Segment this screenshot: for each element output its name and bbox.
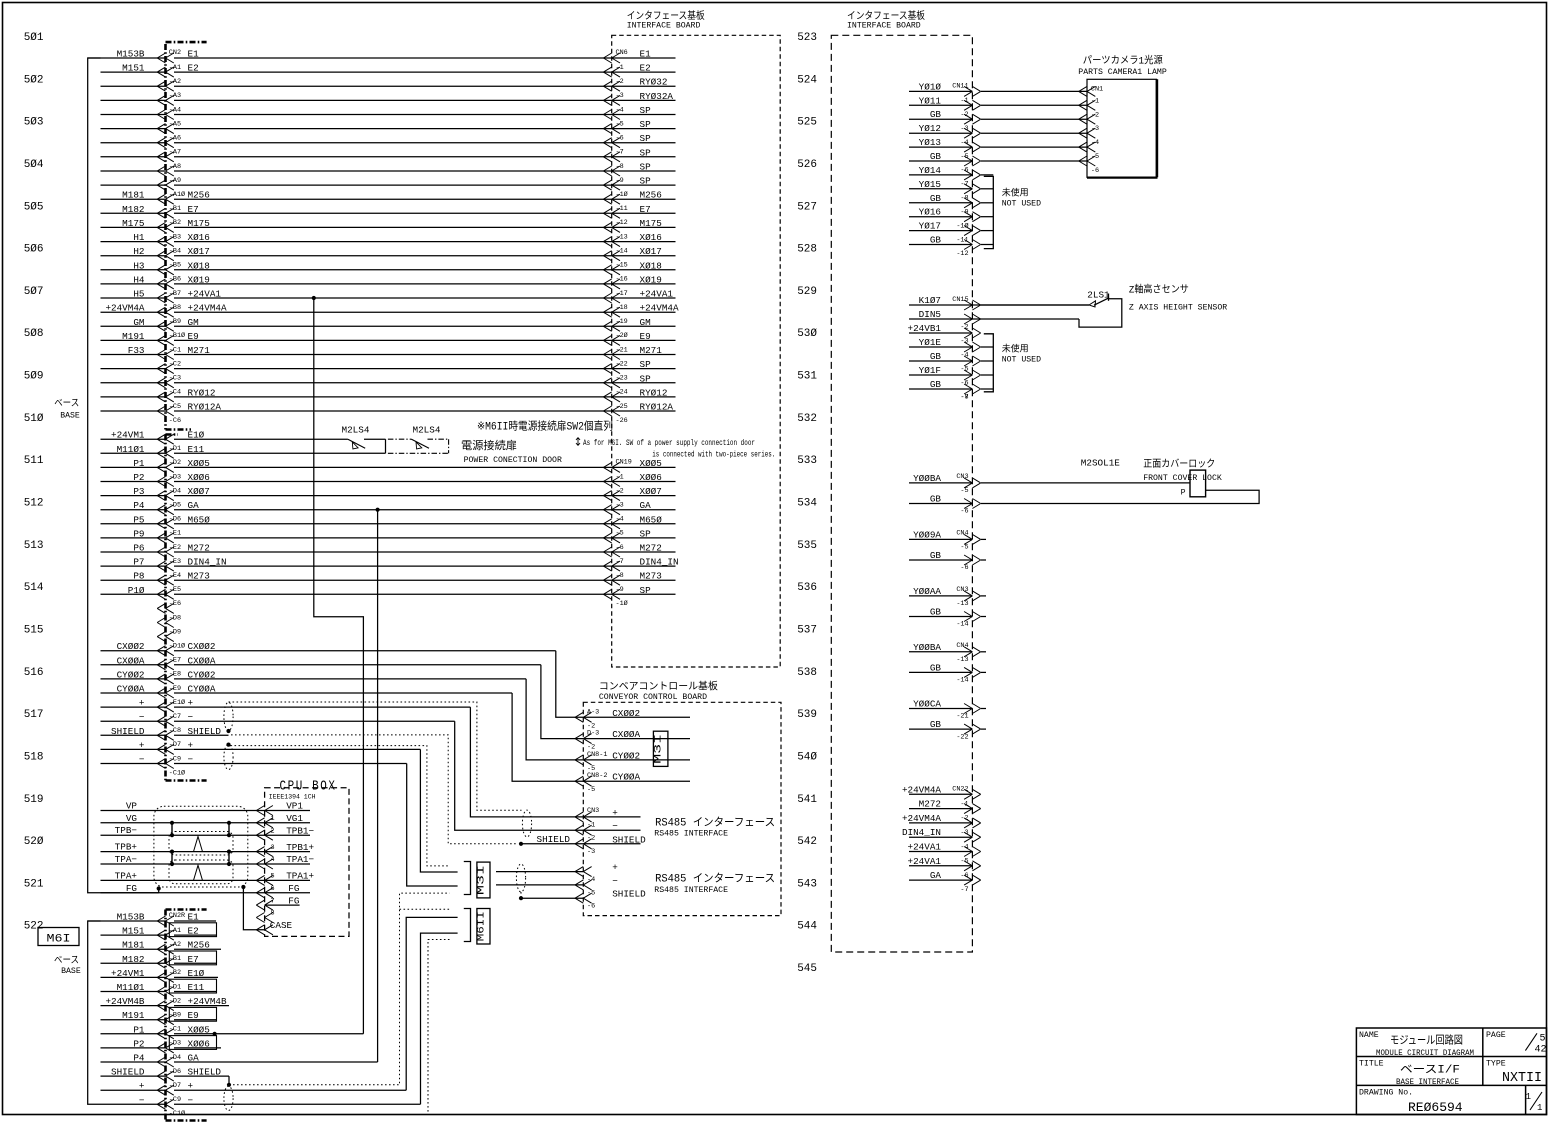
svg-text:-E3: -E3 bbox=[169, 558, 181, 566]
wire CN2R pin -A2 net M256 bbox=[101, 940, 222, 955]
wire CN2 pin -B1 / CN6-12 net E7 row 504 bbox=[101, 204, 676, 219]
svg-text:SHIELD: SHIELD bbox=[188, 1067, 222, 1078]
svg-text:CYØØA: CYØØA bbox=[188, 684, 216, 695]
svg-text:-D7: -D7 bbox=[169, 741, 181, 749]
svg-text:−: − bbox=[139, 754, 145, 765]
svg-text:-E4: -E4 bbox=[169, 572, 181, 580]
svg-text:-B4: -B4 bbox=[169, 248, 181, 256]
svg-text:-A5: -A5 bbox=[169, 120, 181, 128]
svg-text:-A1Ø: -A1Ø bbox=[169, 190, 185, 199]
wire CN2 pin -B4 / CN6-15 net X017 row 505 bbox=[101, 246, 676, 261]
svg-text:-11: -11 bbox=[956, 236, 968, 244]
wire CN2 pin -B9 / CN6-20 net GM row 507 bbox=[101, 317, 676, 332]
wire CN2 pin -B5 / CN6-16 net X018 row 506 bbox=[101, 260, 676, 275]
svg-text:SHIELD: SHIELD bbox=[612, 834, 646, 845]
wire CN2 pin -B6 / CN6-17 net X019 row 506 bbox=[101, 274, 676, 289]
wire CN2 pin CN2 / CN6-1 net E1 row 501 bbox=[88, 49, 676, 64]
svg-text:INTERFACE BOARD: INTERFACE BOARD bbox=[627, 21, 701, 30]
wire shield stub to CN3-2 bbox=[521, 843, 583, 845]
svg-text:IEEE1394 1CH: IEEE1394 1CH bbox=[269, 794, 316, 801]
svg-text:+24VM4A: +24VM4A bbox=[188, 303, 227, 314]
svg-text:-5: -5 bbox=[587, 786, 595, 794]
svg-text:RYØ12: RYØ12 bbox=[640, 387, 668, 398]
svg-text:-3: -3 bbox=[616, 502, 624, 510]
svg-text:XØ17: XØ17 bbox=[640, 246, 662, 257]
svg-text:E2: E2 bbox=[640, 63, 651, 74]
wire CN2 pin -C1 / CN6-22 net M271 row 508 bbox=[101, 345, 676, 360]
svg-text:P5: P5 bbox=[133, 514, 144, 525]
svg-text:YØ17: YØ17 bbox=[919, 221, 941, 232]
wire CN2 pin -A4 / CN6-5 net SP row 502 bbox=[101, 105, 676, 120]
svg-text:−: − bbox=[612, 875, 618, 886]
svg-text:-C1: -C1 bbox=[169, 1026, 181, 1034]
svg-text:-A7: -A7 bbox=[169, 149, 181, 157]
wire CN2 pin -E5 net nc bbox=[101, 585, 676, 600]
wire CN2 pin -D3 net X006 bbox=[101, 472, 676, 487]
svg-text:-C9: -C9 bbox=[169, 1096, 181, 1104]
shield dotted path D3 (M6II tag lead to frame) bbox=[428, 940, 450, 1115]
conveyor control board dashed outline bbox=[583, 702, 781, 915]
jumper E10-E11 for M6I bbox=[385, 439, 387, 453]
svg-text:TITLE: TITLE bbox=[1359, 1060, 1384, 1069]
wire CN2 pin -D9 net nc bbox=[157, 628, 181, 641]
svg-text:+24VM4A: +24VM4A bbox=[902, 784, 941, 795]
wire CN2 pin -D5 net GA bbox=[101, 500, 676, 515]
svg-text:FG: FG bbox=[288, 883, 299, 894]
junction GA bus bbox=[376, 508, 380, 512]
svg-text:XØØ6: XØØ6 bbox=[188, 472, 210, 483]
wire CN11-11 net GB bbox=[909, 235, 993, 250]
wire CN22-4 net +24VA1 bbox=[908, 842, 981, 857]
wire CN3 -6 net GB bbox=[909, 494, 981, 516]
wire CN22-2 net +24VM4A bbox=[902, 813, 981, 828]
svg-text:XØ19: XØ19 bbox=[188, 274, 210, 285]
svg-text:NXTII: NXTII bbox=[1502, 1071, 1542, 1086]
svg-text:CYØØA: CYØØA bbox=[117, 684, 145, 695]
wire CN15 net Y01F bbox=[909, 365, 993, 387]
svg-text:2: 2 bbox=[271, 827, 275, 835]
svg-text:XØ17: XØ17 bbox=[188, 246, 210, 257]
svg-text:P8: P8 bbox=[133, 571, 144, 582]
svg-text:E9: E9 bbox=[188, 1010, 199, 1021]
svg-text:M271: M271 bbox=[188, 345, 211, 356]
svg-text:-5: -5 bbox=[960, 858, 968, 866]
svg-text:E11: E11 bbox=[188, 982, 205, 993]
svg-text:CN2R: CN2R bbox=[169, 912, 185, 920]
svg-text:-6: -6 bbox=[616, 135, 624, 143]
wire RS485#2 − (from M3I tag) bbox=[496, 884, 583, 886]
wire CN2 pin -E9 net CY00A bbox=[101, 684, 513, 699]
svg-text:SP: SP bbox=[640, 162, 652, 173]
svg-text:-E2: -E2 bbox=[169, 544, 181, 552]
svg-text:-8: -8 bbox=[616, 572, 624, 580]
svg-text:M6II: M6II bbox=[476, 911, 487, 941]
svg-text:513: 513 bbox=[24, 540, 44, 552]
wire CN2 pin -B10 / CN6-21 net E9 row 507 bbox=[101, 331, 676, 346]
connector CN3 RS485#1 − wire bbox=[583, 829, 640, 831]
svg-text:RYØ12A: RYØ12A bbox=[640, 402, 674, 413]
svg-text:RYØ32: RYØ32 bbox=[640, 77, 668, 88]
wire CN4 -13 net Y00BA bbox=[909, 642, 981, 664]
svg-text:CN3: CN3 bbox=[587, 807, 599, 815]
junction +24VA1 bus bbox=[312, 296, 316, 300]
wire CN2R pin -D7 net + bbox=[101, 1081, 407, 1096]
svg-text:TPA−: TPA− bbox=[115, 854, 138, 865]
shield dotted path B (SHIELD wire to RS485#1 shield pin) bbox=[231, 735, 517, 844]
wire CN2R pin -D3 net X006 bbox=[101, 1036, 222, 1053]
svg-text:5Ø3: 5Ø3 bbox=[24, 117, 44, 129]
svg-text:P6: P6 bbox=[133, 543, 144, 554]
wire CN2 pin -D2 net X005 bbox=[101, 458, 676, 473]
wire CN22-5 net +24VA1 bbox=[908, 856, 981, 871]
svg-text:DIN4_IN: DIN4_IN bbox=[640, 557, 679, 568]
svg-text:YØØBA: YØØBA bbox=[913, 473, 941, 484]
svg-text:-4: -4 bbox=[616, 516, 624, 524]
svg-text:TPB1−: TPB1− bbox=[286, 825, 314, 836]
junction TPB+/TPA- ties bbox=[171, 852, 173, 864]
svg-text:M175: M175 bbox=[122, 218, 144, 229]
svg-text:1: 1 bbox=[1526, 1092, 1531, 1102]
wire CN2 pin -E7 net CX00A bbox=[101, 655, 541, 670]
svg-text:-26: -26 bbox=[616, 417, 628, 425]
svg-text:511: 511 bbox=[24, 455, 44, 467]
svg-text:-12: -12 bbox=[956, 250, 968, 258]
svg-text:-4: -4 bbox=[616, 106, 624, 114]
svg-text:5Ø6: 5Ø6 bbox=[24, 244, 44, 256]
svg-text:54Ø: 54Ø bbox=[797, 751, 817, 763]
svg-text:+24VA1: +24VA1 bbox=[908, 842, 942, 853]
svg-text:527: 527 bbox=[797, 201, 817, 213]
svg-text:P3: P3 bbox=[133, 486, 144, 497]
svg-text:M151: M151 bbox=[122, 63, 145, 74]
svg-text:CXØØA: CXØØA bbox=[117, 655, 145, 666]
svg-text:-8: -8 bbox=[960, 393, 968, 401]
svg-text:CN8-1: CN8-1 bbox=[587, 751, 607, 759]
svg-text:CXØØ2: CXØØ2 bbox=[188, 641, 216, 652]
module tag M6I bbox=[38, 928, 79, 946]
wire − (RS485#1) vertical bbox=[455, 721, 584, 830]
wire CN15 net GB bbox=[909, 379, 993, 401]
svg-text:-9: -9 bbox=[616, 586, 624, 594]
wire CN2 pin -A8 / CN6-9 net SP row 503 bbox=[101, 162, 676, 177]
wire CN2R pin -A1 net E2 bbox=[101, 923, 217, 940]
wire CN22-3 net DIN4_IN bbox=[902, 827, 981, 842]
wire CN4 -14 net GB bbox=[909, 662, 981, 684]
wire CN2 pin -D7 net + bbox=[101, 740, 421, 755]
svg-text:-E6: -E6 bbox=[169, 600, 181, 608]
shield oval RS485#1 bbox=[522, 810, 531, 837]
svg-text:M151: M151 bbox=[122, 926, 145, 937]
svg-text:-13: -13 bbox=[956, 600, 968, 608]
wire CN15 net Y01E bbox=[909, 337, 993, 359]
svg-text:CXØØ2: CXØØ2 bbox=[117, 641, 145, 652]
svg-text:コンベアコントロール基板: コンベアコントロール基板 bbox=[599, 679, 718, 693]
module tag M3I (RS485 link) bbox=[464, 862, 471, 895]
junction shield RS485#1 bbox=[519, 842, 523, 846]
interface board (right) dashed outline bbox=[831, 35, 972, 952]
wire CN11-1 net Y011 bbox=[909, 95, 1099, 119]
svg-text:BASE INTERFACE: BASE INTERFACE bbox=[1396, 1078, 1459, 1087]
svg-text:42: 42 bbox=[1535, 1044, 1547, 1055]
svg-text:XØØ6: XØØ6 bbox=[188, 1038, 210, 1049]
svg-text:YØØCA: YØØCA bbox=[913, 699, 941, 710]
svg-text:パーツカメラ1光源: パーツカメラ1光源 bbox=[1083, 54, 1163, 68]
svg-text:-E5: -E5 bbox=[169, 586, 181, 594]
svg-text:545: 545 bbox=[797, 963, 817, 975]
svg-text:M65Ø: M65Ø bbox=[640, 514, 663, 525]
svg-text:H3: H3 bbox=[133, 260, 144, 271]
svg-text:544: 544 bbox=[797, 921, 817, 933]
svg-text:-D6: -D6 bbox=[169, 1068, 181, 1076]
svg-text:539: 539 bbox=[797, 709, 817, 721]
shield dotted path D2 (bottom SHIELD to M3I tag) bbox=[229, 893, 450, 1085]
shield dotted path D1 (pair2 shield to M3I tag) bbox=[231, 746, 450, 866]
svg-text:-B2: -B2 bbox=[169, 969, 181, 977]
junction shield-SHIELD lower bbox=[226, 743, 230, 747]
svg-text:-C1Ø: -C1Ø bbox=[169, 1109, 185, 1118]
wire conveyor pin A-3 net CX002 bbox=[556, 651, 690, 731]
svg-text:モジュール回路図: モジュール回路図 bbox=[1390, 1034, 1463, 1048]
svg-text:CXØØA: CXØØA bbox=[188, 655, 216, 666]
svg-text:1: 1 bbox=[1537, 1103, 1542, 1113]
svg-text:-B1: -B1 bbox=[169, 955, 181, 963]
svg-text:-D2: -D2 bbox=[169, 997, 181, 1005]
svg-text:-A4: -A4 bbox=[169, 106, 181, 114]
svg-text:FG: FG bbox=[288, 895, 299, 906]
svg-text:GB: GB bbox=[930, 109, 942, 120]
svg-text:-1: -1 bbox=[616, 473, 624, 481]
svg-text:TYPE: TYPE bbox=[1486, 1060, 1506, 1069]
svg-text:M65Ø: M65Ø bbox=[188, 514, 211, 525]
left bus bracket (E1-FG chassis tie) bbox=[88, 58, 159, 893]
wire CN2 pin -C7 net − bbox=[101, 712, 455, 727]
svg-text:518: 518 bbox=[24, 751, 44, 763]
wire CN2 pin -B2 / CN6-13 net M175 row 505 bbox=[101, 218, 676, 233]
svg-text:M256: M256 bbox=[640, 190, 662, 201]
svg-text:CYØØ2: CYØØ2 bbox=[188, 669, 216, 680]
svg-text:-6: -6 bbox=[587, 903, 595, 911]
wire CN11-10 net Y017 bbox=[909, 221, 993, 236]
shield oval (bottom pair) bbox=[224, 1086, 233, 1110]
svg-text:536: 536 bbox=[797, 582, 817, 594]
wire CN2 pin -E10 net + bbox=[101, 698, 471, 713]
svg-text:M11Ø1: M11Ø1 bbox=[117, 444, 145, 455]
svg-text:-E7: -E7 bbox=[169, 657, 181, 665]
svg-text:E2: E2 bbox=[188, 926, 199, 937]
svg-text:-E8: -E8 bbox=[169, 671, 181, 679]
svg-text:525: 525 bbox=[797, 117, 817, 129]
svg-text:is connected with two-piece se: is connected with two-piece series. bbox=[652, 451, 775, 460]
svg-text:PAGE: PAGE bbox=[1486, 1031, 1506, 1040]
svg-text:YØØ9A: YØØ9A bbox=[913, 529, 941, 540]
svg-text:CN1: CN1 bbox=[1091, 86, 1103, 94]
svg-text:-B9: -B9 bbox=[169, 1012, 181, 1020]
svg-text:+: + bbox=[188, 698, 194, 709]
svg-text:GM: GM bbox=[133, 317, 144, 328]
svg-text:SHIELD: SHIELD bbox=[188, 726, 222, 737]
svg-text:-6: -6 bbox=[1091, 167, 1099, 175]
svg-text:-A3: -A3 bbox=[169, 92, 181, 100]
svg-text:FG: FG bbox=[126, 883, 137, 894]
svg-text:7: 7 bbox=[271, 897, 275, 905]
svg-text:8: 8 bbox=[271, 910, 275, 918]
svg-text:-1: -1 bbox=[616, 64, 624, 72]
wire CN2 pin -E1 net nc bbox=[101, 528, 676, 543]
svg-text:534: 534 bbox=[797, 498, 817, 510]
svg-text:-12: -12 bbox=[616, 219, 628, 227]
svg-text:-B1: -B1 bbox=[169, 205, 181, 213]
svg-text:-D1: -D1 bbox=[169, 983, 181, 991]
svg-text:5Ø9: 5Ø9 bbox=[24, 371, 44, 383]
svg-text:NOT USED: NOT USED bbox=[1002, 356, 1041, 365]
svg-text:+: + bbox=[612, 807, 618, 818]
svg-text:-5: -5 bbox=[616, 530, 624, 538]
svg-text:-1Ø: -1Ø bbox=[616, 599, 628, 608]
svg-text:-14: -14 bbox=[616, 248, 628, 256]
svg-text:-22: -22 bbox=[956, 733, 968, 741]
svg-text:CASE: CASE bbox=[270, 920, 293, 931]
svg-text:-1Ø: -1Ø bbox=[956, 221, 968, 230]
svg-text:-C4: -C4 bbox=[169, 389, 181, 397]
wire IEEE1394 pin 6 FG bbox=[101, 883, 311, 898]
svg-text:5: 5 bbox=[271, 873, 275, 881]
svg-text:SHIELD: SHIELD bbox=[111, 1067, 145, 1078]
shield dotted path A (pair1 shield to RS485#1 oval) bbox=[229, 702, 522, 810]
svg-text:-5: -5 bbox=[587, 889, 595, 897]
wire CN2 pin -B3 / CN6-14 net X016 row 505 bbox=[101, 232, 676, 247]
svg-text:-A1: -A1 bbox=[169, 64, 181, 72]
twisted pair TPB dotted outline bbox=[169, 832, 233, 856]
wire CASE to cable shield bbox=[241, 885, 245, 889]
svg-text:−: − bbox=[188, 754, 194, 765]
svg-text:-16: -16 bbox=[616, 276, 628, 284]
svg-text:YØ13: YØ13 bbox=[919, 137, 941, 148]
shield dotted lead M6II top bbox=[400, 908, 450, 910]
wire CN2R pin -D4 net GA bbox=[101, 1053, 378, 1068]
wire CN3 -5 net Y00BA bbox=[909, 473, 981, 495]
svg-text:ベース: ベース bbox=[54, 955, 79, 966]
title block sheet 1/1 bbox=[1530, 1092, 1542, 1110]
svg-text:-25: -25 bbox=[616, 403, 628, 411]
wire CN2R pin -B1 net E7 bbox=[101, 951, 217, 968]
svg-text:-3: -3 bbox=[960, 125, 968, 133]
svg-text:P9: P9 bbox=[133, 528, 144, 539]
svg-text:TPB+: TPB+ bbox=[115, 842, 138, 853]
svg-text:-B9: -B9 bbox=[169, 318, 181, 326]
svg-text:-A1: -A1 bbox=[169, 927, 181, 935]
junction shield RS485#2 bbox=[519, 896, 523, 900]
svg-text:DRAWING No.: DRAWING No. bbox=[1359, 1089, 1413, 1098]
svg-text:M182: M182 bbox=[122, 204, 144, 215]
svg-text:-D5: -D5 bbox=[169, 502, 181, 510]
svg-text:H5: H5 bbox=[133, 289, 144, 300]
svg-text:542: 542 bbox=[797, 836, 817, 848]
svg-text:543: 543 bbox=[797, 878, 817, 890]
svg-text:-9: -9 bbox=[616, 177, 624, 185]
svg-text:-1: -1 bbox=[960, 800, 968, 808]
svg-text:−: − bbox=[139, 712, 145, 723]
svg-text:YØ14: YØ14 bbox=[919, 165, 942, 176]
svg-text:GB: GB bbox=[930, 379, 942, 390]
svg-text:523: 523 bbox=[797, 32, 817, 44]
wire CN2 pin -E3 net DIN4_IN bbox=[101, 557, 679, 572]
wire CN15 net +24VB1 bbox=[908, 323, 981, 345]
module tag M6II (conveyor link) bbox=[464, 909, 471, 942]
wire GA vertical to bottom GA bbox=[377, 510, 379, 1062]
wire CN2 pin -C3 / CN6-24 net SP row 508 bbox=[101, 373, 676, 388]
svg-text:+: + bbox=[612, 862, 618, 873]
svg-text:-C1: -C1 bbox=[169, 346, 181, 354]
svg-text:-1: -1 bbox=[960, 97, 968, 105]
svg-text:-E9: -E9 bbox=[169, 685, 181, 693]
svg-text:M175: M175 bbox=[188, 218, 210, 229]
svg-text:51Ø: 51Ø bbox=[24, 413, 44, 425]
svg-text:※M6II時電源接続扉SW2個直列: ※M6II時電源接続扉SW2個直列 bbox=[477, 419, 613, 434]
wire CN2R pin -B9 net E9 bbox=[101, 1007, 217, 1024]
wire IEEE1394 pin 5 TPA1+ bbox=[101, 870, 315, 885]
wire CN4cont -22 net GB bbox=[909, 719, 981, 741]
svg-text:GB: GB bbox=[930, 494, 942, 505]
svg-text:5Ø5: 5Ø5 bbox=[24, 201, 44, 213]
svg-text:-5: -5 bbox=[960, 153, 968, 161]
svg-text:-7: -7 bbox=[960, 886, 968, 894]
wire CN4cont -21 net Y00CA bbox=[909, 699, 981, 721]
svg-text:VP: VP bbox=[126, 801, 138, 812]
wire IEEE1394 pin 7 FG bbox=[256, 895, 299, 910]
shield oval (upper RS485 pair) bbox=[224, 702, 233, 730]
svg-text:E7: E7 bbox=[640, 204, 651, 215]
wire RS485#2 SHIELD bbox=[521, 897, 583, 899]
svg-text:ベース: ベース bbox=[54, 398, 79, 409]
svg-text:516: 516 bbox=[24, 667, 44, 679]
svg-text:-2: -2 bbox=[616, 78, 624, 86]
svg-text:-6: -6 bbox=[960, 564, 968, 572]
svg-text:NOT USED: NOT USED bbox=[1002, 200, 1041, 209]
svg-text:-3: -3 bbox=[960, 829, 968, 837]
svg-text:GM: GM bbox=[188, 317, 199, 328]
svg-text:CXØØA: CXØØA bbox=[612, 729, 640, 740]
svg-text:6: 6 bbox=[271, 885, 275, 893]
svg-text:+24VM4A: +24VM4A bbox=[640, 303, 679, 314]
svg-text:M3I: M3I bbox=[654, 734, 665, 764]
svg-text:-E1: -E1 bbox=[169, 530, 181, 538]
svg-text:E9: E9 bbox=[640, 331, 651, 342]
svg-text:P1: P1 bbox=[133, 458, 145, 469]
svg-text:541: 541 bbox=[797, 794, 817, 806]
connector CN2 (upper group) dash-dot line bbox=[164, 44, 167, 430]
svg-text:F33: F33 bbox=[128, 345, 145, 356]
svg-text:P4: P4 bbox=[133, 1053, 145, 1064]
solenoid M2SOL1E (front cover lock) bbox=[981, 482, 1190, 484]
svg-text:XØ18: XØ18 bbox=[188, 260, 210, 271]
svg-text:GA: GA bbox=[640, 500, 652, 511]
wire + (RS485#1) vertical bbox=[470, 707, 583, 817]
svg-text:A-3: A-3 bbox=[587, 708, 599, 716]
svg-text:As for M6I. SW of a power supp: As for M6I. SW of a power supply connect… bbox=[583, 439, 755, 448]
svg-text:-B5: -B5 bbox=[169, 262, 181, 270]
svg-text:-4: -4 bbox=[960, 843, 968, 851]
svg-text:RS485 インターフェース: RS485 インターフェース bbox=[655, 816, 775, 830]
svg-text:-D8: -D8 bbox=[169, 614, 181, 622]
svg-text:-D1: -D1 bbox=[169, 445, 181, 453]
svg-text:532: 532 bbox=[797, 413, 817, 425]
svg-text:SP: SP bbox=[640, 147, 652, 158]
svg-text:P1Ø: P1Ø bbox=[128, 585, 145, 596]
wire CN2R pin -D1 net E11 bbox=[101, 979, 217, 996]
svg-text:GB: GB bbox=[930, 550, 942, 561]
svg-text:CYØØ2: CYØØ2 bbox=[612, 750, 640, 761]
svg-text:M272: M272 bbox=[919, 799, 941, 810]
